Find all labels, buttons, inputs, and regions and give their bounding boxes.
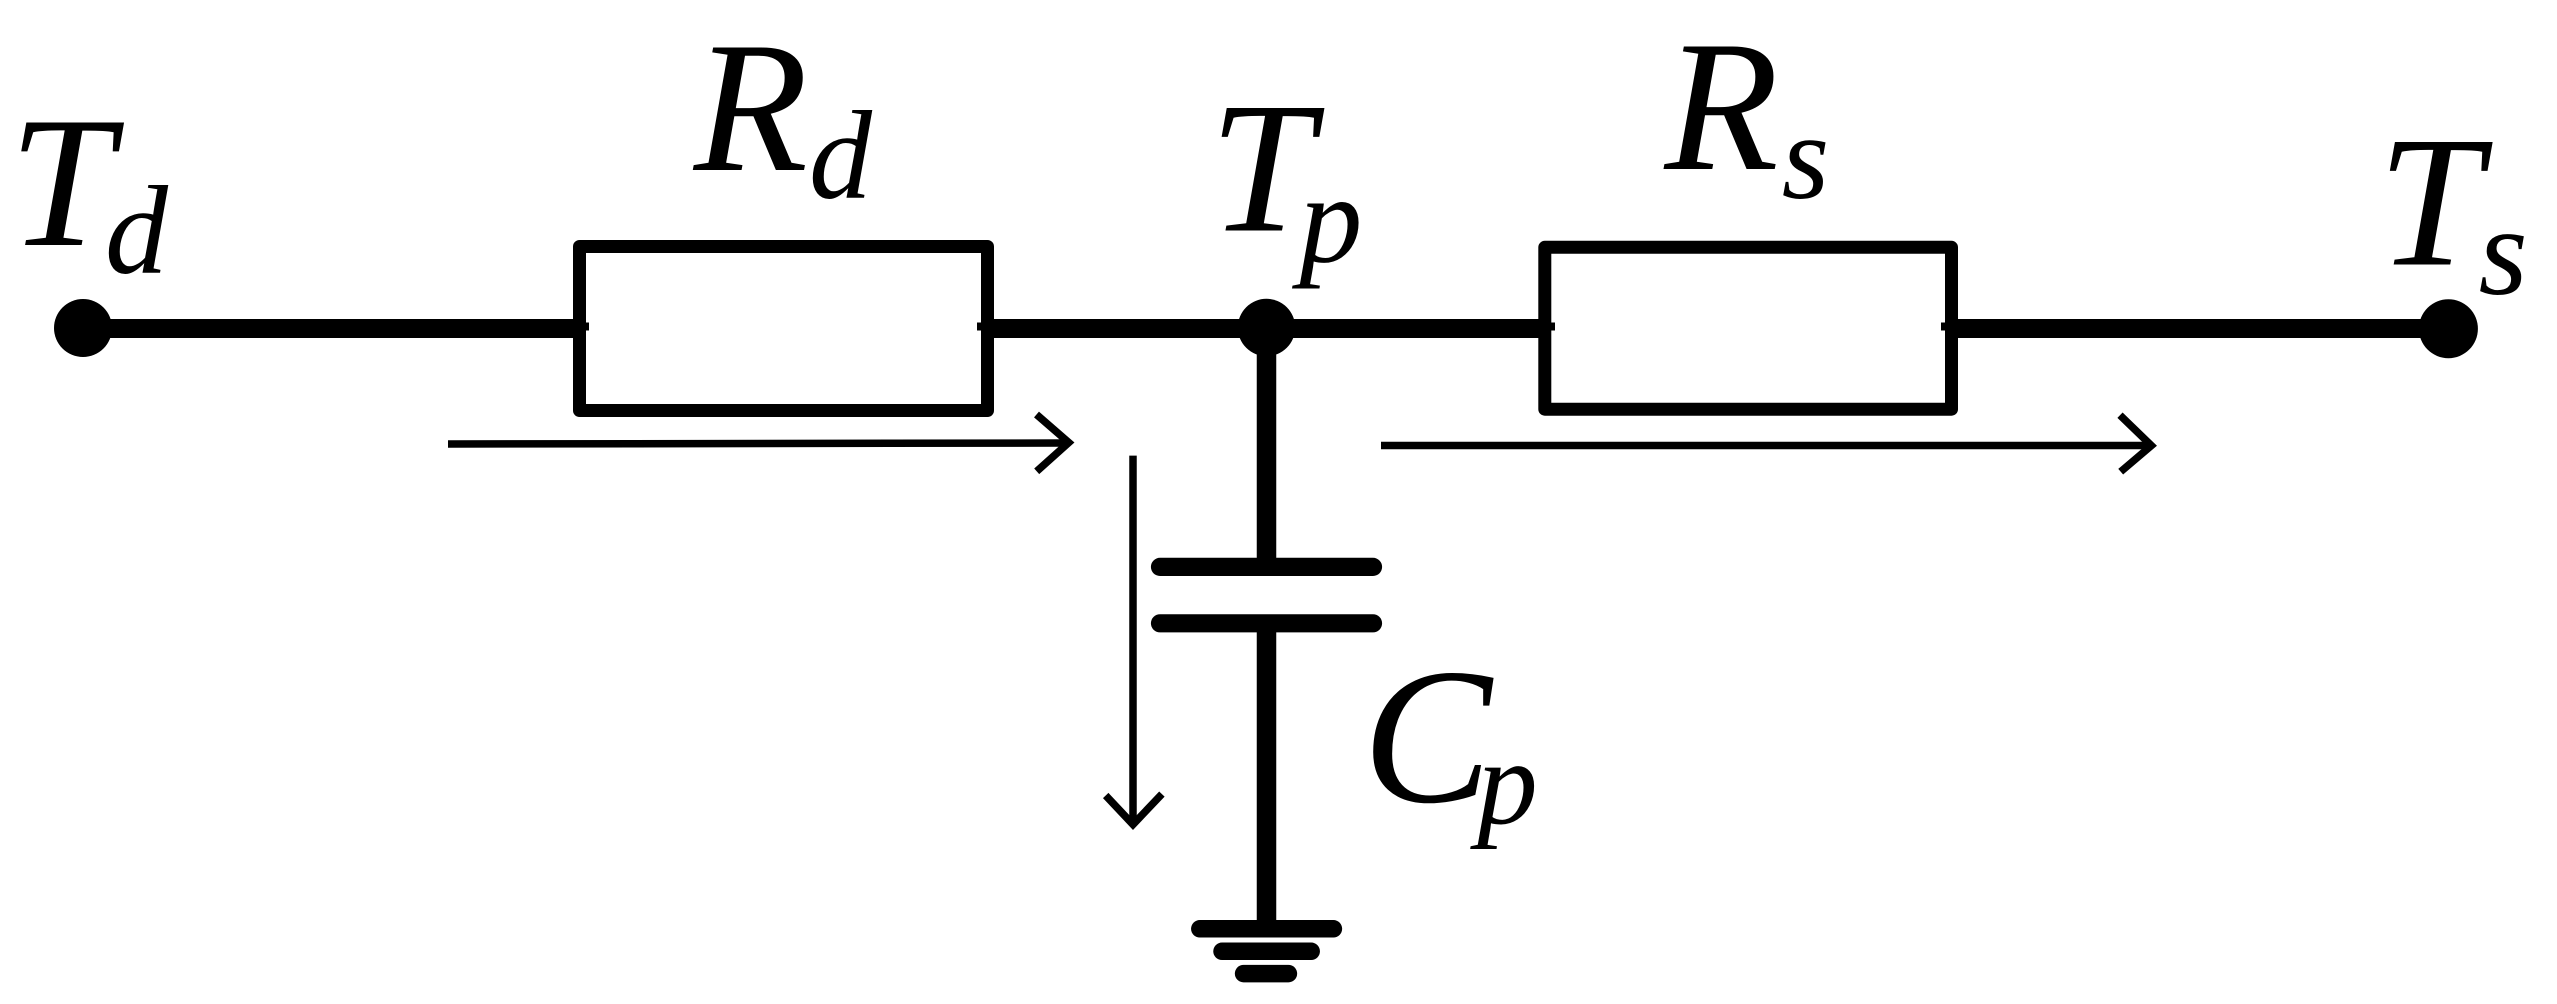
svg-text:Tp: Tp [1209,65,1362,290]
ground bar 1 [1200,920,1334,938]
svg-text:Rs: Rs [1664,3,1830,225]
wire capacitor to ground [1257,623,1277,929]
node Td [54,299,112,357]
wire nub inside R_d left [583,323,589,331]
capacitor C_p top plate [1160,558,1373,576]
ground bar 2 [1222,943,1311,961]
resistor R_d [580,247,988,411]
heat flow arrow vertical at capacitor [1106,456,1162,825]
svg-text:Td: Td [9,79,169,301]
node Ts [2419,299,2478,358]
svg-text:Ts: Ts [2378,99,2528,323]
wire nub inside R_d right [977,323,983,331]
heat flow arrow under R_d [448,415,1069,472]
resistor R_s [1545,247,1952,409]
ground bar 3 [1244,965,1289,983]
wire nub inside R_s right [1941,323,1947,331]
svg-text:Rd: Rd [693,4,873,226]
wire nub inside R_s left [1549,323,1555,331]
capacitor C_p bottom plate [1160,614,1373,632]
wire main horizontal Td-Ts [83,319,2448,338]
node Tp [1238,299,1295,356]
heat flow arrow under R_s [1381,415,2151,472]
svg-text:Cp: Cp [1362,629,1537,851]
wire vertical Tp to capacitor [1257,328,1277,567]
